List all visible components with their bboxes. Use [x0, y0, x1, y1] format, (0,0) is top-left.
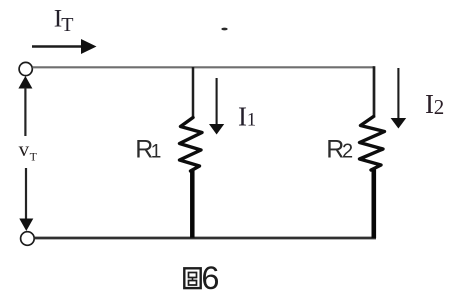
- arrow I2 branch current: [391, 68, 407, 129]
- wire R2 branch upper / right corner: [373, 66, 376, 117]
- wire R1 branch lower: [190, 171, 195, 238]
- svg-text:2: 2: [434, 95, 445, 119]
- svg-text:2: 2: [342, 141, 353, 163]
- svg-text:1: 1: [151, 141, 162, 162]
- svg-text:T: T: [30, 149, 38, 163]
- svg-text:1: 1: [247, 111, 256, 131]
- svg-text:I: I: [425, 89, 434, 119]
- voltage arrowhead down vT: [19, 219, 33, 232]
- label R2: [326, 136, 353, 164]
- svg-text:v: v: [19, 137, 30, 161]
- stray dash mark: [221, 28, 227, 31]
- label I2: [425, 89, 444, 119]
- resistor R1: [180, 118, 203, 172]
- arrow IT current direction: [32, 39, 97, 54]
- svg-text:T: T: [61, 14, 73, 36]
- wire bottom rail: [34, 237, 376, 240]
- node terminal top-left: [19, 62, 32, 75]
- wire R2 branch lower: [371, 170, 376, 239]
- svg-text:6: 6: [201, 260, 219, 296]
- caption figure character tu (drawn): [184, 268, 200, 288]
- wire R1 branch upper: [192, 67, 195, 119]
- label IT: [54, 4, 74, 36]
- node terminal bottom-left: [21, 232, 35, 246]
- label vT: [19, 137, 38, 163]
- wire top rail: [33, 66, 375, 68]
- arrow I1 branch current: [209, 78, 224, 135]
- wire vT upper segment: [24, 88, 26, 137]
- wire vT lower segment: [25, 168, 27, 220]
- voltage arrowhead up vT: [18, 76, 32, 89]
- label I1: [238, 102, 256, 132]
- label R1: [135, 136, 161, 164]
- svg-text:I: I: [238, 102, 247, 132]
- resistor R2: [360, 117, 385, 171]
